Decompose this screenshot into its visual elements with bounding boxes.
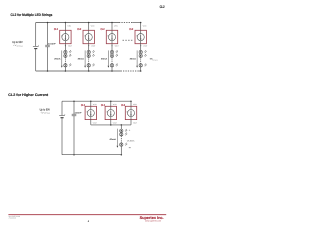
svg-text:100nF: 100nF	[48, 42, 57, 45]
battery V1 branch	[33, 23, 40, 72]
svg-text:CL2: CL2	[101, 104, 105, 107]
junction	[88, 70, 90, 72]
LED D2a	[87, 50, 95, 54]
pin label VOUT	[93, 121, 97, 124]
node output pin	[65, 45, 66, 46]
node output pin	[111, 45, 112, 46]
wire dashed continuation	[88, 58, 90, 64]
wire	[111, 67, 113, 71]
svg-text:CL2: CL2	[160, 5, 165, 9]
current arrow string 1	[54, 50, 62, 67]
svg-text:CL2: CL2	[54, 28, 58, 31]
svg-text:VOUT: VOUT	[93, 121, 97, 124]
current arrow combined	[110, 129, 119, 148]
junction	[65, 70, 67, 72]
svg-text:www.supertex.com: www.supertex.com	[145, 219, 161, 222]
wire	[111, 53, 113, 55]
pin label VIN	[67, 24, 72, 27]
pin label VIN	[113, 103, 118, 106]
node U4 input junction	[140, 22, 142, 24]
wire dashed continuation	[140, 58, 142, 64]
footer revision line	[9, 217, 17, 220]
wire	[64, 44, 66, 51]
pin label VOUT	[68, 45, 72, 48]
LED D3b	[110, 54, 118, 58]
svg-text:CL2: CL2	[121, 104, 125, 107]
wire	[130, 120, 132, 125]
node join U6	[110, 124, 112, 126]
section title: CL2 for Multiple LED Strings	[11, 13, 53, 17]
svg-text:VOUT: VOUT	[113, 121, 117, 124]
svg-text:BATT(max): BATT(max)	[44, 113, 51, 115]
pin label VOUT	[91, 45, 95, 48]
svg-text:20mA: 20mA	[54, 58, 61, 61]
wire	[64, 53, 66, 55]
LED D5a	[120, 129, 128, 133]
capacitor C2 branch	[72, 101, 77, 155]
annotation + VLEDs -	[127, 129, 134, 148]
header part number CL2	[160, 5, 165, 9]
label C2 value	[75, 112, 83, 115]
pin label VOUT	[113, 121, 117, 124]
wire	[110, 101, 112, 106]
pin label VIN	[143, 24, 148, 27]
LED D5b	[120, 133, 128, 137]
svg-text:CL2: CL2	[101, 28, 105, 31]
footer Supertex Inc. logo text	[140, 215, 164, 220]
node U6 input junction	[110, 100, 112, 102]
wire	[88, 44, 90, 51]
current arrow string 2	[78, 50, 86, 67]
svg-text:Supertex Inc.: Supertex Inc.	[140, 215, 164, 220]
LED D1c	[64, 63, 72, 67]
annotation per-string tolerance	[150, 58, 158, 62]
wire	[64, 23, 66, 31]
wire	[140, 53, 142, 55]
svg-text:CL2: CL2	[77, 28, 81, 31]
junction	[121, 154, 123, 156]
wire	[88, 49, 90, 51]
wire	[90, 101, 92, 106]
node U7 input junction	[130, 100, 132, 102]
wire dashed continuation	[111, 58, 113, 64]
wire	[111, 44, 113, 51]
CL2 U1	[60, 30, 71, 43]
LED D1b	[64, 54, 72, 58]
label Up to 90V (2)	[40, 108, 51, 115]
node U1 input junction	[65, 22, 67, 24]
svg-text:VOUT: VOUT	[133, 121, 137, 124]
wire	[140, 23, 142, 31]
svg-text:tolerance: tolerance	[152, 60, 158, 62]
wire	[140, 67, 142, 71]
wire	[120, 131, 122, 133]
LED D3c	[110, 63, 118, 67]
svg-text:60mA: 60mA	[110, 138, 117, 141]
svg-text:Up to 90V: Up to 90V	[40, 108, 50, 112]
CL2 U5	[85, 106, 96, 119]
wire	[88, 53, 90, 55]
wire	[140, 44, 142, 51]
current arrow string 4	[130, 50, 138, 67]
LED D1a	[64, 50, 72, 54]
footer rule	[8, 213, 166, 216]
svg-text:VOUT: VOUT	[68, 45, 72, 48]
node C1 bottom junction	[47, 70, 49, 72]
capacitor C1 branch	[45, 23, 50, 72]
CL2 U2	[83, 30, 94, 43]
label U6 CL2	[101, 104, 105, 107]
wire	[120, 125, 122, 129]
wire	[88, 23, 90, 31]
pin label VIN	[93, 103, 98, 106]
label U5 CL2	[81, 104, 85, 107]
label U4 CL2	[129, 28, 133, 31]
current arrow string 3	[101, 50, 109, 67]
CL2 U6	[105, 106, 116, 119]
CL2 U4	[135, 30, 146, 43]
wire	[130, 101, 132, 106]
label C1 value	[48, 42, 57, 45]
page number 4	[88, 220, 90, 223]
LED D4b	[139, 54, 147, 58]
wire top rail 2 (V+)	[62, 100, 131, 102]
svg-text:CL2 for Higher Current: CL2 for Higher Current	[8, 93, 49, 97]
wire	[111, 23, 113, 31]
wire	[64, 49, 66, 51]
wire dashed continuation	[120, 136, 122, 143]
svg-text:CL2: CL2	[129, 28, 133, 31]
footer doc number line	[9, 215, 20, 218]
LED D5c	[120, 143, 128, 147]
LED D3a	[110, 50, 118, 54]
svg-text:VLEDs: VLEDs	[127, 140, 134, 143]
pin label VOUT	[133, 121, 137, 124]
wire	[120, 146, 122, 154]
wire	[90, 120, 92, 125]
section title: CL2 for Higher Current	[8, 93, 49, 97]
LED D4a	[139, 50, 147, 54]
node C2 top junction	[73, 100, 75, 102]
svg-text:CL2 for Multiple LED Strings: CL2 for Multiple LED Strings	[11, 13, 53, 17]
LED D4c	[139, 63, 147, 67]
svg-text:VOUT: VOUT	[143, 45, 147, 48]
pin label VIN	[91, 24, 96, 27]
wire joining rail	[91, 124, 131, 126]
label U2 CL2	[77, 28, 81, 31]
pin label VOUT	[115, 45, 119, 48]
LED D2b	[87, 54, 95, 58]
wire	[88, 67, 90, 71]
footer website	[145, 219, 161, 222]
CL2 U3	[106, 30, 117, 43]
node string tap	[121, 124, 123, 126]
wire top rail (V+)	[36, 22, 141, 24]
ellipsis more strings	[123, 39, 134, 41]
label Up to 90V	[12, 40, 23, 47]
node U3 input junction	[111, 22, 113, 24]
wire	[111, 49, 113, 51]
svg-text:VOUT: VOUT	[91, 45, 95, 48]
wire bottom rail (return)	[36, 70, 141, 72]
svg-text:VOUT: VOUT	[115, 45, 119, 48]
svg-text:BATT(max): BATT(max)	[17, 45, 24, 47]
node U5 input junction	[90, 100, 92, 102]
svg-text:20mA: 20mA	[130, 58, 137, 61]
svg-text:Up to 90V: Up to 90V	[12, 40, 22, 44]
wire	[64, 67, 66, 71]
label U1 CL2	[54, 28, 58, 31]
pin label VIN	[133, 103, 138, 106]
junction	[111, 70, 113, 72]
LED D2c	[87, 63, 95, 67]
wire	[110, 120, 112, 125]
svg-text:100nF: 100nF	[75, 112, 83, 115]
wire	[140, 49, 142, 51]
node U2 input junction	[88, 22, 90, 24]
svg-text:20mA: 20mA	[78, 58, 85, 61]
svg-text:20mA: 20mA	[101, 58, 108, 61]
junction	[140, 70, 142, 72]
wire bottom rail 2	[62, 154, 121, 156]
wire dashed continuation	[64, 58, 66, 64]
battery V2 branch	[59, 101, 66, 155]
node C2 bottom junction	[73, 154, 75, 156]
pin label VOUT	[143, 45, 147, 48]
pin label VIN	[114, 24, 119, 27]
node output pin	[140, 45, 141, 46]
node C1 top junction	[47, 22, 49, 24]
label U3 CL2	[101, 28, 105, 31]
CL2 U7	[125, 106, 136, 119]
svg-text:CL2: CL2	[81, 104, 85, 107]
node output pin	[88, 45, 89, 46]
label U7 CL2	[121, 104, 125, 107]
